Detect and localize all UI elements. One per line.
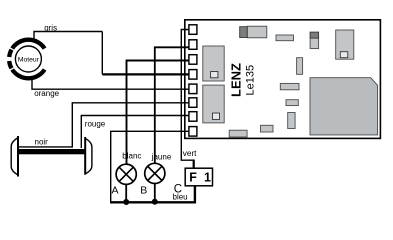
svg-text:gris: gris	[44, 24, 57, 33]
component U1 (big chip, chamfered corner)	[310, 78, 378, 135]
wire bleu: pad 8 left and down to common bus	[111, 131, 190, 202]
pad 7	[189, 112, 197, 122]
component R1 (flat rect top)	[276, 35, 294, 41]
right wheel tread	[85, 138, 92, 174]
pad 3	[189, 55, 197, 64]
lamp A	[116, 164, 136, 184]
svg-text:Le135: Le135	[245, 65, 257, 96]
svg-text:1: 1	[204, 171, 211, 185]
svg-text:noir: noir	[35, 137, 49, 146]
wire common bus (bleu)	[110, 186, 195, 203]
svg-text:LENZ: LENZ	[229, 63, 244, 97]
component R6 (flat rect bottom-middle)	[229, 130, 247, 137]
wire noir: wheel to pad 6	[18, 103, 190, 147]
component R5 (small vertical rect)	[288, 113, 295, 129]
wire jaune: lamp B to pad 2	[155, 47, 190, 163]
junction lamp A / bus	[123, 199, 129, 205]
svg-text:Moteur: Moteur	[18, 57, 40, 64]
motor M1	[9, 40, 44, 79]
pad 8	[189, 127, 197, 137]
wire gris: thick run to pad 4	[102, 73, 189, 75]
left wheel flange	[17, 136, 19, 177]
wire vert: pad 1 down to F1	[181, 30, 193, 161]
svg-text:jaune: jaune	[151, 152, 172, 161]
function box F1	[185, 168, 212, 186]
svg-text:rouge: rouge	[85, 119, 106, 128]
svg-text:A: A	[112, 185, 119, 197]
component C3 (vertical rect top-right with window)	[336, 30, 354, 59]
wire lamp A bottom stub	[125, 184, 127, 202]
component D1 (top-middle, dark end cap)	[240, 26, 267, 38]
junction lamp B / bus	[152, 199, 158, 205]
component C2 (big rect lower-left on PCB)	[203, 85, 224, 123]
right wheel flange	[84, 137, 86, 175]
pad 2	[189, 40, 197, 50]
pad 6	[189, 98, 197, 108]
wheelset	[11, 136, 92, 177]
component C1 (big rect upper-left on PCB)	[203, 46, 224, 81]
wire orange: motor bottom stub and run to pad 5	[32, 76, 190, 89]
component R3 (flat rect mid-right)	[280, 83, 299, 89]
pad 4	[189, 70, 197, 80]
svg-text:B: B	[140, 184, 147, 196]
svg-text:blanc: blanc	[122, 152, 141, 161]
svg-text:vert: vert	[183, 149, 197, 158]
wire rouge: wheel to pad 7	[81, 116, 189, 149]
component R4 (small flat rect)	[286, 100, 298, 106]
axle	[19, 149, 85, 154]
decoder PCB outline LENZ Le135	[185, 20, 381, 139]
pad 5	[189, 84, 197, 94]
svg-text:F: F	[189, 171, 197, 185]
lamp B	[145, 163, 165, 183]
pad 1	[189, 25, 197, 35]
component R7 (flat rect bottom)	[261, 125, 274, 132]
wire blanc: lamp A to pad 3	[127, 61, 190, 165]
wire gris: motor top stub	[34, 32, 102, 43]
component D2 (small vertical, dark top)	[310, 32, 319, 49]
wire lamp B bottom stub	[154, 184, 156, 203]
wire gris: vertical drop	[101, 32, 103, 75]
left wheel tread	[11, 138, 18, 175]
svg-text:orange: orange	[34, 89, 59, 98]
svg-text:bleu: bleu	[173, 193, 188, 202]
component R2 (small vertical rect)	[297, 58, 303, 75]
